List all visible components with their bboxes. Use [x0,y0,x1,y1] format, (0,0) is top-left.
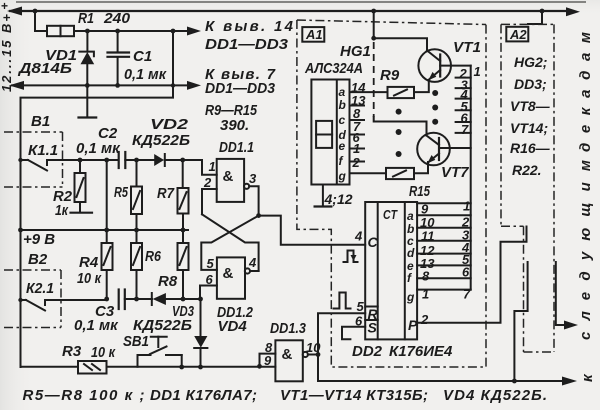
label R3 10 к [62,343,116,361]
label C3 0,1 мк [74,303,119,334]
border frame top [1,0,586,13]
wire: C2 to VD2 [125,158,154,163]
arrow bottom к следующим декадам [514,377,577,386]
pin 6 label [355,314,363,329]
wire and arrow middle к следующим декадам [556,262,578,330]
svg-text:DD1.1: DD1.1 [219,139,254,156]
pin 4 label [354,229,363,244]
wire: bottom rail to DD1.3 [107,364,276,370]
svg-text:В1: В1 [31,113,50,130]
wire: jog to pin 9 [260,354,276,367]
wire: output up to DD2 R input [318,313,365,354]
wire: VD2 to DD1.1 pin1 [165,158,217,175]
label R6 [145,248,162,265]
resistor R2 [75,160,86,212]
svg-text:+9 В: +9 В [23,231,55,248]
svg-text:R8: R8 [158,273,178,290]
svg-text:R4: R4 [79,254,99,271]
dashed line omitted collectors [373,42,375,117]
dash-dot box A1 [297,20,486,367]
label B1 [31,113,50,130]
wire: +9V rail after R1 [74,27,201,36]
wire: top +supply rail [7,7,580,17]
resistor R7 [178,160,189,230]
svg-text:R3: R3 [62,343,82,360]
label C1 0,1 мк [124,48,167,83]
wire: collector feed VT1 [371,11,427,51]
wire: R9 to VT1 emitter [414,80,429,92]
svg-text:g: g [338,169,347,183]
node R1-C1 [115,29,120,34]
svg-text:10 к: 10 к [91,344,116,361]
vertical label к следующим декадам [577,32,596,382]
svg-text:2: 2 [203,175,212,190]
label HG1 АЛС324А [304,43,371,77]
label C2 0,1 мк [76,125,121,157]
node DD1.3 output [316,352,321,357]
svg-text:10 к: 10 к [77,270,102,287]
svg-text:d: d [407,246,415,260]
digit symbol in HG1 [316,121,332,148]
svg-text:1: 1 [209,159,216,174]
label VT1 [453,39,481,56]
gate DD1.3 [275,340,302,381]
bus pin label 1 [474,64,481,79]
wire: B1 signal node [78,158,118,163]
label R input [368,306,379,322]
svg-text:7: 7 [461,122,469,137]
svg-text:А1: А1 [305,27,323,42]
svg-text:А2: А2 [509,27,527,42]
bus stub rungs [456,78,471,133]
capacitor C2 [119,152,126,168]
pin 2 label and wire [202,175,217,214]
svg-text:g: g [406,290,415,304]
svg-text:a: a [407,209,414,223]
svg-text:0,1 мк: 0,1 мк [74,317,119,334]
svg-text:e: e [339,139,346,153]
DD2 output pin numbers [420,202,435,302]
label SB1 [123,333,149,350]
bus vertical right [470,66,472,290]
label C input [368,234,379,250]
svg-text:VT8—: VT8— [510,98,551,114]
svg-text:HG2;: HG2; [514,54,547,70]
pin 4 output with bubble [245,255,259,274]
junction top rail to R1 [33,9,47,31]
svg-text:DD1—DD3: DD1—DD3 [205,80,276,97]
svg-text:HG1: HG1 [340,43,371,60]
wire: +9V horizontal rail [18,228,188,233]
zener diode VD1 [79,31,94,117]
svg-text:АЛС324А: АЛС324А [304,60,363,77]
svg-text:В2: В2 [28,251,48,268]
svg-text:12...15 В+: 12...15 В+ [0,14,14,92]
label VD1 Д814Б [17,47,77,77]
label DD1.3 [270,320,307,337]
svg-text:R1: R1 [78,10,94,27]
label +9 В [23,231,55,248]
svg-text:c: c [339,113,346,127]
ellipsis dots omitted resistors [396,109,402,157]
wire: DD1.3 output down to bottom line [318,355,514,382]
pin 9 label [264,353,272,368]
capacitor C3 [119,290,125,310]
label DD1.1 [219,139,254,156]
label S input [368,320,378,336]
wire: +9V feed down-left to bus [21,31,176,367]
svg-text:R6: R6 [145,248,162,265]
label R5 [114,184,128,201]
label DD2 К176ИЕ4 [352,343,453,360]
svg-text:&: & [223,168,234,185]
dash-dot box B2 [4,270,61,328]
dash-dot box A2 [501,24,554,352]
pin 5 label [357,299,365,314]
label VD3 [172,303,194,320]
resistor R1 [47,26,74,36]
diode VD2 [154,154,165,166]
pulse symbol at C [344,251,358,263]
resistor R8 [178,230,189,299]
svg-text:К176ИЕ4: К176ИЕ4 [389,343,453,360]
svg-text:7: 7 [463,287,471,302]
label VT7 [441,164,469,181]
junction top rail to A1 column [371,9,376,14]
pushbutton SB1 [138,337,182,368]
svg-text:VT14;: VT14; [510,120,548,136]
ground bar of R2 [71,212,93,214]
node +9V to vertical link [171,29,176,34]
ground bar of VD1 [79,116,97,118]
reed contact K1.1 [18,158,80,171]
caption DD1 К176ЛА7 [150,387,257,404]
label DD1.2 VD4 [217,304,254,335]
node VD3 output [198,297,203,302]
svg-text:8: 8 [265,340,273,355]
svg-text:DD3;: DD3; [514,76,547,92]
svg-text:5: 5 [207,256,215,271]
pin 10 output with bubble [303,340,322,357]
resistor R5 [131,160,142,230]
svg-text:0,1 мк: 0,1 мк [124,66,167,83]
label R8 [158,273,178,290]
svg-text:a: a [339,85,346,99]
svg-text:4: 4 [354,229,363,244]
label R4 10 к [77,254,102,287]
pin 5 label [207,256,215,271]
resistor R15 [386,168,414,179]
label К выв. 14 DD1-DD3 [205,18,294,53]
wire: VT1 base to bus [440,65,471,67]
reed contact K2.1 [18,298,106,311]
HG1 pin stubs b,c,d,e,f [350,106,365,162]
svg-text:S: S [368,320,378,336]
resistor R6 [131,230,142,299]
resistor R3 [78,361,107,374]
svg-text:0,1 мк: 0,1 мк [76,140,121,157]
svg-text:11: 11 [421,229,435,244]
svg-text:4: 4 [248,255,257,270]
svg-text:6: 6 [462,265,470,280]
cross-coupling wires of RS latch [201,214,258,271]
svg-text:DD1 К176ЛА7;: DD1 К176ЛА7; [150,387,257,404]
svg-text:R9: R9 [380,67,400,84]
diode VD3 [152,293,201,305]
svg-text:240: 240 [103,10,131,27]
label К выв. 7 DD1-DD3 [205,66,276,97]
svg-text:C1: C1 [133,48,152,65]
ladder right pin numbers 1-7 [461,199,471,302]
label R2 1к [53,188,73,219]
svg-text:К2.1: К2.1 [26,280,54,297]
label CT [383,207,398,222]
svg-text:R15: R15 [409,183,430,200]
label R15 [409,183,430,200]
svg-text:VD2: VD2 [150,116,189,133]
pin 6 label and wire [200,272,217,299]
svg-text:DD1.3: DD1.3 [270,320,307,337]
caption VD4 КД522Б [443,387,547,404]
pin 2 label at P [420,312,429,327]
svg-text:DD2: DD2 [352,343,383,360]
wire: bottom line to right link [512,262,528,383]
svg-text:1к: 1к [55,202,69,219]
svg-text:R22.: R22. [512,162,542,178]
svg-text:C: C [368,234,379,250]
wire: VT7 base to bus [439,147,471,149]
capacitor C1 [108,31,130,85]
svg-text:CT: CT [383,207,398,222]
DD2 output ladder wires [417,203,471,289]
svg-text:К выв. 14: К выв. 14 [205,18,294,35]
dash-dot box B1 [4,132,63,187]
svg-text:9: 9 [264,353,272,368]
svg-text:КД522Б: КД522Б [133,317,192,334]
svg-text:Д814Б: Д814Б [17,60,73,77]
svg-text:8: 8 [422,269,430,284]
transistor VT1 [418,49,451,82]
wire: P output to next decade [417,227,526,323]
wire: B2 signal node [104,297,109,302]
svg-text:DD1—DD3: DD1—DD3 [205,36,289,53]
svg-text:КД522Б: КД522Б [132,132,190,149]
label P output [408,317,418,333]
bus pin labels 2-7 [459,66,470,137]
label HG2 DD3 VT8-VT14 R16-R22 [510,54,551,178]
svg-text:5: 5 [357,299,365,314]
svg-text:2: 2 [420,312,429,327]
indicator HG1 [311,80,349,185]
wire: node to +9V rail [106,160,108,243]
wire: collector feed VT7 [374,117,427,136]
label 4;12 [324,191,353,207]
node C1-common [115,83,120,88]
caption VT1-VT14 КТ315Б [280,387,428,404]
step symbol at S [342,327,365,340]
svg-text:3: 3 [249,171,257,186]
label box A1 [302,27,324,42]
svg-text:&: & [282,346,293,363]
label VD2 КД522Б [132,116,190,149]
HG1 common pin with bar [315,185,332,207]
label R9-R15 390 [205,102,258,134]
label K1.1 [28,142,58,159]
transistor VT7 [417,133,450,166]
svg-text:4;12: 4;12 [324,191,353,207]
wire: HG1 pin g to R15 [350,172,387,174]
gate DD1.2 [217,257,245,298]
svg-text:R5: R5 [114,184,128,201]
svg-text:VT7: VT7 [441,164,469,181]
pin 8 label [265,340,273,355]
svg-text:VT1—VT14 КТ315Б;: VT1—VT14 КТ315Б; [280,387,428,404]
svg-text:P: P [408,317,418,333]
svg-text:VT1: VT1 [453,39,481,56]
wire: common rail (к выв.7) [9,81,201,90]
svg-text:1: 1 [463,199,470,214]
diode VD4 [194,299,207,367]
wire: latch output to DD2 C input [259,216,366,245]
svg-text:390.: 390. [220,117,249,134]
label R7 [157,185,175,202]
DD2 segment letters a-g [406,209,415,304]
label 12...15V supply (vertical text) [0,14,14,92]
junction top rail to A2 [528,9,544,24]
gate DD1.1 [217,159,244,202]
pin 3 output with bubble [244,171,259,216]
svg-text:VD4: VD4 [218,318,248,335]
label box A2 [506,27,528,42]
label R9 [380,67,400,84]
HG1 pin numbers [351,80,366,170]
svg-text:b: b [339,98,346,112]
HG1 segment labels a-g [338,85,347,183]
ellipsis dots omitted transistors [432,90,438,125]
wire: R15 to VT7 emitter [414,162,428,173]
pin 1 label [209,159,216,174]
label B2 [28,251,48,268]
svg-text:+: + [1,0,8,13]
pulse symbol at R [334,293,351,309]
wire: C3 to VD3 [125,297,152,302]
node DD1.1 output [256,213,261,218]
wire: bottom common rail left [21,366,79,368]
node VD1-common [85,83,90,88]
svg-text:1: 1 [474,64,481,79]
svg-text:К1.1: К1.1 [28,142,58,159]
resistor R4 [102,243,113,299]
caption R5-R8 100 к [23,387,145,404]
svg-text:R5—R8 100 к ;: R5—R8 100 к ; [23,387,145,404]
svg-text:R7: R7 [157,185,175,202]
node R1-VD1 [85,29,90,34]
wire: HG1 pin a to R9 [350,91,388,93]
counter DD2 [365,202,417,339]
label R1 240 [78,10,131,27]
svg-text:R16—: R16— [510,140,551,156]
svg-text:SB1: SB1 [123,333,149,350]
svg-text:VD4 КД522Б.: VD4 КД522Б. [443,387,547,404]
svg-text:1: 1 [422,287,429,302]
label КД522Б (VD3) [133,317,192,334]
resistor R9 [388,87,415,98]
label K2.1 [26,280,54,297]
svg-text:&: & [223,265,234,282]
